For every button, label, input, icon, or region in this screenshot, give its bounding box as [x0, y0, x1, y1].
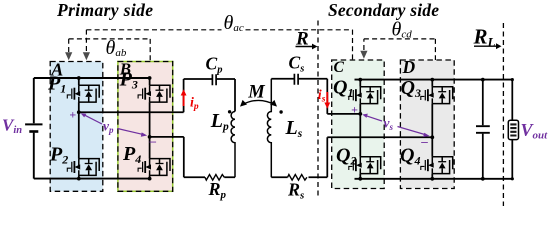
battery Vin: [25, 124, 42, 131]
wire tank bottom with Rp: [150, 137, 235, 177]
junction dot node a: [77, 110, 81, 114]
junction dot Vout bottom: [511, 177, 514, 180]
junction dot top rail leg D: [430, 78, 434, 82]
svg-text:Rp: Rp: [208, 179, 227, 201]
label R with arrow: [295, 28, 318, 49]
svg-text:–: –: [149, 133, 157, 148]
svg-text:+: +: [69, 107, 76, 121]
wire secondary bottom rail: [355, 178, 513, 180]
junction dot top rail leg B: [148, 76, 152, 80]
battery Vout: [508, 120, 518, 139]
phase bracket theta_ab dashed lines: [69, 39, 151, 62]
transistor Q3: [421, 87, 453, 104]
junction dot Vout top: [511, 78, 514, 81]
junction dot node c: [358, 112, 362, 116]
resistor Rs: [288, 175, 307, 181]
Vout branch wires: [511, 80, 513, 179]
leg D highlight box: [400, 60, 454, 189]
Vin source wires: [33, 78, 35, 179]
wire primary bottom rail: [34, 178, 150, 180]
wire tank2 top with Cs: [271, 79, 327, 114]
reference line R dashed vertical: [317, 21, 319, 199]
svg-text:vs: vs: [384, 116, 394, 133]
junction dot bottom rail leg D: [430, 177, 434, 181]
svg-text:Cp: Cp: [206, 54, 223, 76]
junction dot bottom rail leg A: [77, 177, 81, 181]
wire node c: [327, 113, 360, 115]
transistor P4: [138, 159, 170, 176]
junction dot top rail leg C: [358, 78, 362, 82]
output capacitor: [476, 126, 490, 133]
svg-text:Vout: Vout: [521, 120, 549, 142]
wire leg B vertical: [149, 78, 151, 179]
output capacitor wires: [482, 80, 484, 179]
svg-text:M: M: [247, 82, 265, 102]
label R_L with arrow: [473, 25, 502, 50]
junction dot bottom rail leg B: [148, 177, 152, 181]
capacitor Cp: [212, 74, 216, 85]
svg-text:B: B: [119, 59, 131, 78]
wire leg D vertical: [431, 80, 433, 179]
svg-text:vp: vp: [103, 119, 114, 136]
mutual coupling arrow M: [240, 100, 277, 107]
wire node a to tank: [79, 79, 184, 112]
svg-text:ip: ip: [190, 96, 199, 113]
svg-text:θab: θab: [106, 37, 127, 59]
junction dot bottom rail leg C: [358, 177, 362, 181]
reference line R_L dashed vertical: [502, 23, 504, 206]
wire tank2 bottom with Rs: [271, 137, 432, 177]
vs arrow to node c: [362, 114, 382, 121]
svg-text:–: –: [420, 134, 428, 149]
svg-text:θcd: θcd: [392, 19, 413, 41]
transistor Q2: [349, 157, 381, 174]
polarity dot Ls: [279, 110, 282, 113]
inductor Ls: [267, 79, 271, 178]
svg-text:Cs: Cs: [289, 53, 305, 75]
junction dot output cap bottom: [481, 177, 485, 181]
junction dot node b: [148, 135, 152, 139]
leg B highlight box: [118, 62, 173, 192]
wire secondary top rail: [355, 79, 513, 81]
wire leg C vertical: [359, 80, 361, 179]
wire tank top with Cp: [184, 79, 235, 112]
junction dot top rail leg A: [77, 76, 81, 80]
current arrow ip: [181, 89, 187, 106]
svg-text:D: D: [402, 57, 416, 77]
leg A highlight box: [50, 62, 103, 192]
resistor Rp: [205, 175, 224, 181]
junction dot output cap top: [481, 78, 485, 82]
svg-text:+: +: [351, 103, 358, 117]
capacitor Cs: [294, 74, 298, 85]
transistor P2: [67, 159, 99, 176]
svg-text:C: C: [334, 59, 345, 76]
wire primary top rail: [34, 77, 150, 79]
transistor P3: [138, 85, 170, 102]
transistor Q4: [421, 157, 453, 174]
transistor Q1: [349, 87, 381, 104]
polarity dot Lp: [228, 110, 231, 113]
svg-text:Primary side: Primary side: [56, 0, 153, 20]
vp arrow to node a: [81, 113, 102, 124]
svg-text:is: is: [318, 88, 326, 105]
phase bracket theta_cd dashed lines: [364, 39, 436, 60]
inductor Lp: [231, 112, 235, 178]
vs arrow to node d: [398, 127, 430, 138]
current arrow is: [324, 92, 330, 109]
svg-text:Ls: Ls: [285, 117, 303, 140]
svg-text:A: A: [50, 59, 63, 79]
svg-text:θac: θac: [224, 12, 244, 34]
svg-text:Rs: Rs: [287, 180, 304, 202]
svg-text:Secondary side: Secondary side: [328, 0, 439, 20]
gray arrow on leg A (theta_ab): [65, 52, 72, 60]
vp arrow to node b: [118, 129, 148, 137]
svg-text:Lp: Lp: [210, 110, 229, 133]
svg-text:Vin: Vin: [2, 116, 22, 137]
transistor P1: [67, 85, 99, 102]
phase bracket theta_ac dashed lines: [86, 30, 352, 60]
wire leg A vertical: [78, 78, 80, 179]
gray arrow on leg A (theta_ac): [83, 52, 90, 60]
leg C highlight box: [332, 60, 385, 189]
gray arrow on leg C (theta_cd): [360, 51, 367, 59]
junction dot node d: [430, 135, 434, 139]
